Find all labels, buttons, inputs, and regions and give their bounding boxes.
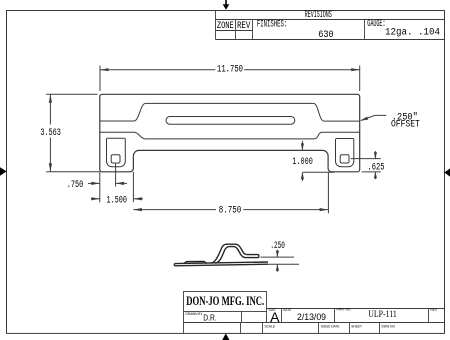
revisions table lines: [216, 11, 445, 40]
left edge: [183, 312, 185, 334]
svg-text:ISSUE DATE: ISSUE DATE: [321, 325, 340, 329]
svg-text:REV: REV: [237, 21, 251, 32]
flat strip bottom: [174, 264, 268, 266]
svg-text:REVISIONS: REVISIONS: [305, 10, 332, 21]
svg-text:11.750: 11.750: [217, 65, 243, 76]
company box: [184, 292, 267, 312]
row bottom line: [184, 322, 445, 324]
svg-text:630: 630: [318, 30, 333, 41]
svg-text:8.750: 8.750: [219, 206, 242, 217]
part outline: [100, 94, 360, 172]
svg-text:1.000: 1.000: [292, 157, 313, 168]
svg-text:DATE: DATE: [283, 308, 291, 312]
svg-text:GAUGE:: GAUGE:: [367, 19, 385, 30]
svg-text:.625: .625: [368, 162, 385, 173]
svg-text:ULP-111: ULP-111: [368, 309, 397, 319]
title block top right line: [267, 308, 445, 310]
svg-text:FINISHES:: FINISHES:: [257, 20, 287, 31]
strip left cap: [173, 264, 175, 266]
left pad: [184, 261, 208, 263]
svg-text:SCALE: SCALE: [265, 325, 275, 329]
svg-text:12ga. .104: 12ga. .104: [385, 28, 440, 39]
svg-text:ZONE: ZONE: [217, 21, 234, 32]
center mark top: [223, 4, 230, 10]
svg-text:3.563: 3.563: [40, 128, 61, 139]
raised slab right cap: [258, 255, 260, 258]
svg-text:SHEET: SHEET: [351, 325, 362, 329]
right tab recess contour: [336, 139, 354, 167]
bottom strip verticals: [240, 323, 242, 334]
svg-text:D.R.: D.R.: [203, 314, 217, 323]
center mark right: [444, 168, 450, 176]
svg-text:A: A: [270, 309, 280, 325]
hump inner: [215, 247, 258, 264]
left tab recess contour: [107, 138, 126, 167]
offset emboss upper contour: [100, 103, 360, 121]
svg-text:OFFSET: OFFSET: [391, 120, 420, 131]
verticals of main row: [241, 312, 243, 323]
flat strip top: [174, 262, 268, 264]
svg-text:DRAWN BY: DRAWN BY: [186, 312, 204, 316]
svg-text:1.500: 1.500: [106, 195, 127, 206]
svg-text:DON-JO MFG. INC.: DON-JO MFG. INC.: [186, 293, 264, 308]
center mark left: [0, 167, 7, 176]
center slot: [166, 117, 295, 125]
left square hole: [111, 155, 120, 163]
center mark bottom: [222, 333, 229, 340]
svg-text:2/13/09: 2/13/09: [297, 312, 326, 322]
svg-text:PART NO.: PART NO.: [337, 308, 352, 312]
svg-text:DWG NO: DWG NO: [382, 325, 396, 329]
svg-text:REV: REV: [431, 308, 438, 312]
right square hole: [340, 155, 349, 163]
hump outer: [211, 244, 259, 263]
svg-text:.250: .250: [270, 241, 285, 252]
offset emboss lower contour: [100, 132, 360, 139]
svg-text:.750: .750: [67, 180, 84, 191]
